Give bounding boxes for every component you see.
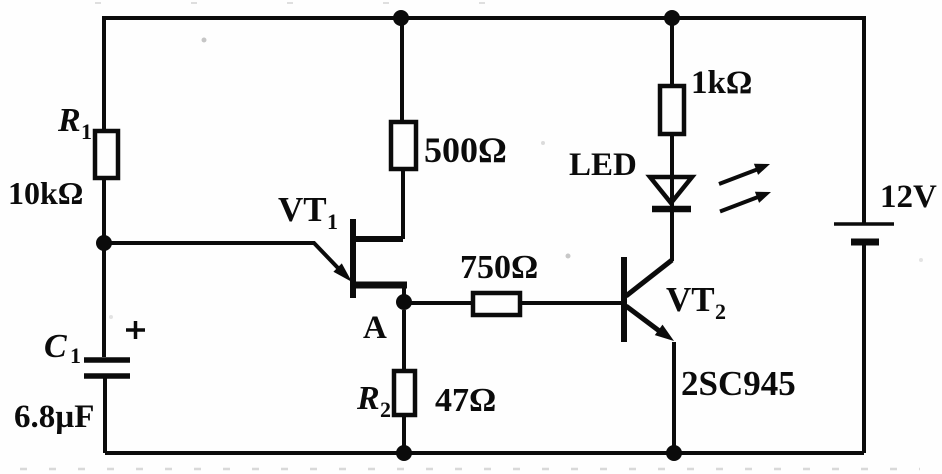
wire R2 to bottom rail xyxy=(402,415,406,453)
svg-text:VT: VT xyxy=(666,280,715,319)
LED light arrow lower xyxy=(720,192,771,212)
plus sign polarity mark xyxy=(126,321,145,339)
svg-text:12V: 12V xyxy=(880,179,937,215)
svg-text:1: 1 xyxy=(70,343,81,368)
LED triangle xyxy=(650,177,692,203)
wire left rail upper (top rail to R1) xyxy=(102,16,106,131)
resistor 1kΩ xyxy=(660,86,684,134)
svg-text:2: 2 xyxy=(715,299,726,324)
LED light arrow upper xyxy=(719,164,770,184)
resistor R1 xyxy=(95,131,118,178)
svg-text:LED: LED xyxy=(569,147,637,183)
capacitor C1 xyxy=(84,360,130,376)
wire top rail to 1kΩ xyxy=(670,18,674,86)
resistor 500Ω xyxy=(391,122,416,169)
wire right rail lower (battery to bottom rail) xyxy=(862,242,866,453)
wire VT1 emitter to node A xyxy=(402,285,406,302)
svg-text:A: A xyxy=(363,310,387,346)
wire top rail to 500Ω xyxy=(400,18,404,122)
svg-text:R: R xyxy=(57,102,81,139)
svg-text:R: R xyxy=(356,380,380,417)
wire 500Ω to VT1 collector xyxy=(401,169,405,239)
wire node A to R2 xyxy=(402,310,406,371)
wire node A to 750Ω xyxy=(404,301,473,305)
svg-text:750Ω: 750Ω xyxy=(460,249,538,286)
wire bottom rail xyxy=(105,451,864,455)
junction dot top middle xyxy=(393,10,409,26)
svg-text:6.8µF: 6.8µF xyxy=(14,399,94,435)
arrowhead VT1 base xyxy=(333,263,352,282)
svg-text:10kΩ: 10kΩ xyxy=(8,175,83,211)
wire LED anode through triangle xyxy=(670,134,674,209)
wire VT2 emitter to bottom rail xyxy=(672,342,676,453)
wire VT2 collector up to LED xyxy=(670,209,674,261)
transistor VT2 xyxy=(624,257,674,342)
wire right rail upper (top rail to battery) xyxy=(862,16,866,224)
svg-text:VT: VT xyxy=(278,190,327,229)
wire VT1 base from left node xyxy=(104,243,338,268)
wire left rail lower (C1 to bottom rail) xyxy=(103,378,107,453)
node A junction dot xyxy=(396,294,412,310)
wire 750Ω to VT2 base xyxy=(520,301,621,305)
battery 12V long plate xyxy=(834,222,894,226)
svg-text:C: C xyxy=(44,328,67,365)
svg-text:47Ω: 47Ω xyxy=(435,382,496,419)
svg-text:2SC945: 2SC945 xyxy=(681,364,796,403)
resistor R2 xyxy=(394,371,415,415)
junction dot bottom middle xyxy=(396,445,412,461)
node junction dot left xyxy=(96,235,112,251)
resistor 750Ω xyxy=(473,293,520,315)
svg-text:2: 2 xyxy=(380,397,391,422)
svg-text:1: 1 xyxy=(327,209,338,234)
transistor VT1 xyxy=(353,219,407,298)
svg-text:1: 1 xyxy=(81,119,92,144)
svg-text:1kΩ: 1kΩ xyxy=(691,65,752,101)
junction dot top right xyxy=(664,10,680,26)
wire left rail (R1 to C1) xyxy=(102,178,106,357)
junction dot bottom right xyxy=(666,445,682,461)
LED cathode bar xyxy=(652,206,691,213)
battery 12V short plate xyxy=(851,239,879,246)
wire top rail xyxy=(104,16,864,20)
svg-text:500Ω: 500Ω xyxy=(424,130,507,170)
